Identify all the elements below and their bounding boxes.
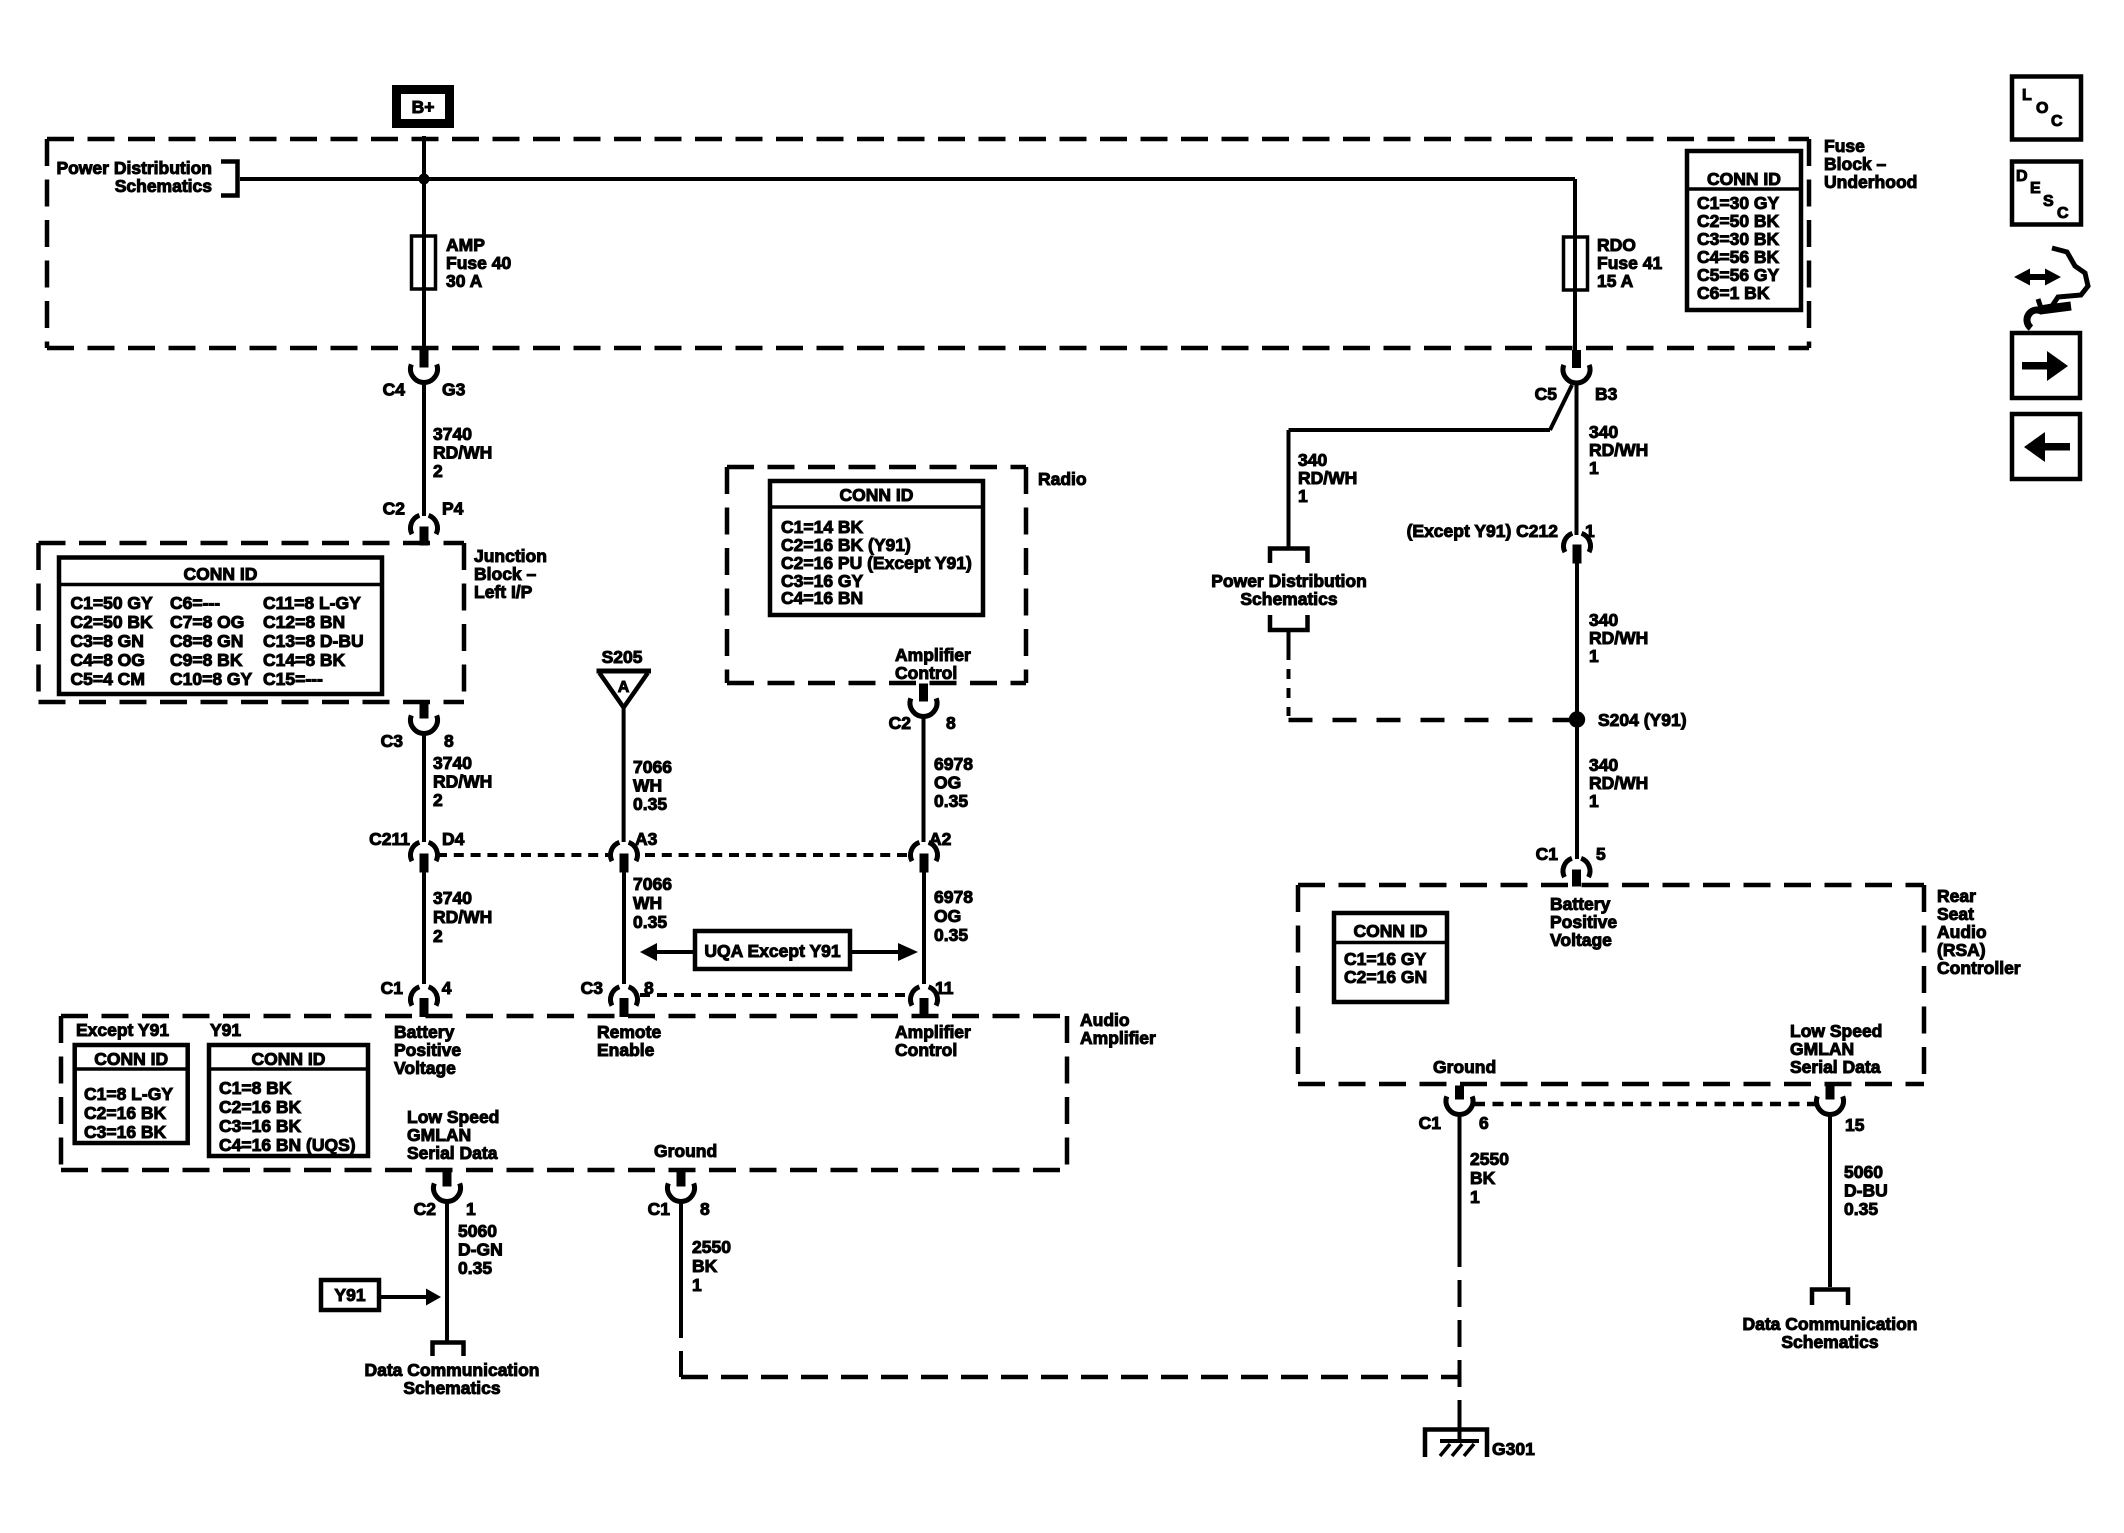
wire 5060 D-BU serial data — [1828, 1114, 1832, 1287]
svg-text:6978: 6978 — [934, 887, 973, 907]
svg-text:WH: WH — [633, 776, 662, 796]
connector C1 5 at RSA — [1563, 858, 1590, 886]
svg-text:C1=30 GY: C1=30 GY — [1697, 193, 1780, 213]
svg-text:RD/WH: RD/WH — [433, 443, 492, 463]
arrow right to amplifier control wire — [850, 950, 899, 954]
svg-text:RD/WH: RD/WH — [1298, 468, 1357, 488]
off-page bracket data communication left — [433, 1343, 464, 1357]
svg-text:B3: B3 — [1595, 384, 1618, 404]
svg-text:CONN ID: CONN ID — [1707, 169, 1781, 189]
svg-text:C4=16 BN (UQS): C4=16 BN (UQS) — [219, 1135, 356, 1155]
svg-text:L: L — [2022, 87, 2032, 104]
svg-text:0.35: 0.35 — [458, 1258, 492, 1278]
svg-text:Amplifier: Amplifier — [1080, 1028, 1156, 1048]
svg-text:3740: 3740 — [433, 888, 472, 908]
svg-text:C6=---: C6=--- — [170, 593, 220, 613]
svg-text:C9=8 BK: C9=8 BK — [170, 650, 243, 670]
connector 11 amplifier control — [911, 987, 938, 1017]
svg-text:Fuse 40: Fuse 40 — [446, 253, 511, 273]
svg-text:Y91: Y91 — [334, 1285, 365, 1305]
svg-text:C2=16 BK: C2=16 BK — [219, 1097, 302, 1117]
svg-text:CONN ID: CONN ID — [840, 485, 914, 505]
svg-text:1: 1 — [1470, 1187, 1480, 1207]
svg-text:2: 2 — [433, 790, 443, 810]
svg-text:RD/WH: RD/WH — [1589, 773, 1648, 793]
svg-text:340: 340 — [1589, 610, 1618, 630]
wire 340 RD/WH below S204 — [1575, 727, 1579, 859]
conn id table junction block — [59, 558, 382, 695]
wire dashed Y91 branch to S204 — [1289, 718, 1570, 723]
svg-text:C3: C3 — [381, 731, 404, 751]
wire 2550 BK rsa ground — [1458, 1114, 1462, 1240]
connector C1 6 ground rsa — [1446, 1086, 1473, 1114]
svg-text:C5=4 CM: C5=4 CM — [71, 669, 145, 689]
svg-text:1: 1 — [1298, 486, 1308, 506]
svg-text:C4=8 OG: C4=8 OG — [71, 650, 145, 670]
svg-text:P4: P4 — [442, 499, 464, 519]
svg-text:C6=1 BK: C6=1 BK — [1697, 283, 1770, 303]
svg-text:C2=50 BK: C2=50 BK — [71, 612, 154, 632]
svg-text:(RSA): (RSA) — [1937, 940, 1986, 960]
connector C1 8 ground out — [667, 1169, 694, 1201]
svg-text:Battery: Battery — [1550, 894, 1611, 914]
wire dashed ground route down — [679, 1311, 683, 1377]
connector C5 B3 at fuse block — [1563, 351, 1590, 383]
svg-text:C1=16 GY: C1=16 GY — [1344, 949, 1427, 969]
svg-text:C1=8 L-GY: C1=8 L-GY — [84, 1084, 173, 1104]
svg-text:8: 8 — [700, 1199, 710, 1219]
wire 3740 RD/WH segment 3 — [422, 871, 426, 984]
svg-text:BK: BK — [692, 1256, 718, 1276]
svg-text:Except Y91: Except Y91 — [76, 1020, 169, 1040]
wire B+ down to fuse AMP — [422, 136, 426, 352]
off-page bracket data communication right — [1812, 1290, 1848, 1306]
svg-text:C3: C3 — [581, 978, 604, 998]
conn id table amp except Y91 — [75, 1045, 188, 1143]
svg-text:340: 340 — [1589, 422, 1618, 442]
wire 340 RD/WH to power distribution — [1289, 428, 1551, 432]
svg-text:C1=14 BK: C1=14 BK — [781, 517, 864, 537]
svg-text:AMP: AMP — [446, 235, 485, 255]
wire 6978 OG from radio — [922, 716, 926, 842]
svg-text:S: S — [2043, 193, 2054, 210]
svg-text:340: 340 — [1589, 755, 1618, 775]
wire dashed connector line 8 to 11 — [640, 993, 909, 997]
wire dashed rsa ground down — [1458, 1240, 1462, 1412]
wire dashed connector line D4 to A3 — [437, 853, 608, 857]
svg-text:C: C — [2057, 205, 2069, 222]
svg-text:C7=8 OG: C7=8 OG — [170, 612, 244, 632]
connector C2 P4 at junction block — [411, 515, 438, 545]
svg-text:WH: WH — [633, 893, 662, 913]
svg-text:C1: C1 — [381, 978, 404, 998]
svg-text:8: 8 — [946, 713, 956, 733]
svg-text:C15=---: C15=--- — [263, 669, 323, 689]
svg-text:C5: C5 — [1535, 384, 1558, 404]
rear seat audio controller box — [1298, 885, 1924, 1084]
svg-text:C2=50 BK: C2=50 BK — [1697, 211, 1780, 231]
svg-text:1: 1 — [1589, 646, 1599, 666]
svg-text:C5=56 GY: C5=56 GY — [1697, 265, 1780, 285]
svg-text:C1=8 BK: C1=8 BK — [219, 1078, 292, 1098]
svg-text:C2: C2 — [414, 1199, 437, 1219]
svg-text:15: 15 — [1845, 1115, 1865, 1135]
svg-text:5: 5 — [1596, 844, 1606, 864]
svg-text:RD/WH: RD/WH — [433, 772, 492, 792]
svg-text:CONN ID: CONN ID — [252, 1049, 326, 1069]
svg-text:OG: OG — [934, 773, 961, 793]
svg-text:C3=8 GN: C3=8 GN — [71, 631, 144, 651]
svg-text:C4: C4 — [383, 380, 406, 400]
svg-text:4: 4 — [442, 978, 452, 998]
svg-text:Voltage: Voltage — [1550, 930, 1612, 950]
wire 7066 WH from S205 — [622, 707, 626, 842]
svg-text:Block –: Block – — [474, 564, 537, 584]
connector C212 — [1564, 533, 1591, 563]
svg-text:A2: A2 — [929, 829, 952, 849]
svg-text:UQA Except Y91: UQA Except Y91 — [704, 941, 840, 961]
svg-text:G301: G301 — [1492, 1439, 1535, 1459]
ground G301 — [1458, 1412, 1462, 1441]
svg-text:OG: OG — [934, 906, 961, 926]
wire 7066 WH segment 2 — [622, 871, 626, 984]
svg-text:Block –: Block – — [1824, 154, 1887, 174]
svg-text:Underhood: Underhood — [1824, 172, 1917, 192]
conn id table rsa — [1334, 913, 1447, 1002]
arrow Y91 to wire — [379, 1295, 427, 1299]
wire dashed connector line 6 to 15 — [1474, 1102, 1815, 1107]
svg-text:C1=50 GY: C1=50 GY — [71, 593, 154, 613]
icon arrow back box — [2012, 414, 2080, 479]
wire 340 RD/WH below C212 — [1575, 562, 1579, 712]
svg-text:Low Speed: Low Speed — [1790, 1021, 1882, 1041]
svg-text:C4=16 BN: C4=16 BN — [781, 588, 863, 608]
conn id table radio — [770, 481, 983, 615]
svg-text:C3=16 BK: C3=16 BK — [219, 1116, 302, 1136]
svg-text:O: O — [2036, 100, 2048, 117]
svg-text:C1: C1 — [1536, 844, 1559, 864]
svg-text:Audio: Audio — [1937, 922, 1987, 942]
svg-text:GMLAN: GMLAN — [407, 1125, 471, 1145]
svg-text:BK: BK — [1470, 1168, 1496, 1188]
svg-text:C2=16 PU (Except Y91): C2=16 PU (Except Y91) — [781, 553, 972, 573]
conn id table amp Y91 — [209, 1045, 368, 1156]
svg-text:GMLAN: GMLAN — [1790, 1039, 1854, 1059]
svg-text:7066: 7066 — [633, 757, 672, 777]
svg-text:Enable: Enable — [597, 1040, 655, 1060]
svg-text:RD/WH: RD/WH — [1589, 628, 1648, 648]
svg-text:30 A: 30 A — [446, 271, 483, 291]
wire 2550 BK ground — [679, 1201, 683, 1311]
svg-text:C2: C2 — [383, 499, 406, 519]
svg-text:2: 2 — [433, 926, 443, 946]
svg-text:Controller: Controller — [1937, 958, 2021, 978]
svg-text:G3: G3 — [442, 380, 466, 400]
svg-text:3740: 3740 — [433, 424, 472, 444]
svg-text:Battery: Battery — [394, 1022, 455, 1042]
svg-text:Schematics: Schematics — [1781, 1332, 1879, 1352]
wire 5060 D-GN — [445, 1201, 449, 1341]
connector C2 1 serial data out — [434, 1169, 461, 1201]
junction block left IP box — [39, 543, 465, 702]
wire 340 RD/WH from B3 down — [1575, 381, 1579, 535]
svg-text:A: A — [618, 679, 630, 696]
wire 3740 RD/WH segment 2 — [422, 733, 426, 842]
svg-text:2550: 2550 — [1470, 1149, 1509, 1169]
svg-text:C4=56 BK: C4=56 BK — [1697, 247, 1780, 267]
connector C4 G3 at fuse block — [411, 350, 438, 382]
svg-text:RD/WH: RD/WH — [433, 907, 492, 927]
svg-text:Low Speed: Low Speed — [407, 1107, 499, 1127]
fuse RDO Fuse 41 15A — [1564, 237, 1588, 290]
svg-text:CONN ID: CONN ID — [184, 564, 258, 584]
svg-text:Ground: Ground — [1433, 1057, 1496, 1077]
svg-text:C11=8 L-GY: C11=8 L-GY — [263, 593, 361, 613]
svg-text:C3=16 BK: C3=16 BK — [84, 1122, 167, 1142]
svg-text:C: C — [2051, 113, 2063, 130]
svg-text:D4: D4 — [442, 829, 465, 849]
svg-text:Schematics: Schematics — [1240, 589, 1338, 609]
icon LOC box — [2012, 77, 2081, 140]
svg-text:C14=8 BK: C14=8 BK — [263, 650, 346, 670]
wire diagonal branch from B3 — [1550, 385, 1572, 430]
svg-text:D-GN: D-GN — [458, 1240, 503, 1260]
svg-text:RD/WH: RD/WH — [1589, 440, 1648, 460]
svg-text:S205: S205 — [602, 647, 643, 667]
svg-text:Seat: Seat — [1937, 904, 1974, 924]
wire RDO fuse branch down — [1573, 179, 1577, 352]
wire 340 RD/WH down to off-page — [1287, 430, 1291, 547]
svg-text:6: 6 — [1479, 1113, 1489, 1133]
svg-text:C10=8 GY: C10=8 GY — [170, 669, 253, 689]
svg-text:6978: 6978 — [934, 754, 973, 774]
wire dashed Y91 branch down — [1287, 650, 1291, 716]
svg-text:Schematics: Schematics — [403, 1378, 501, 1398]
node splice at B+ feed — [419, 174, 430, 185]
svg-text:C1: C1 — [1419, 1113, 1442, 1133]
off-page bracket power distribution — [221, 162, 238, 196]
svg-text:(Except Y91) C212: (Except Y91) C212 — [1407, 521, 1559, 541]
svg-text:1: 1 — [692, 1275, 702, 1295]
svg-text:C2=16 BK (Y91): C2=16 BK (Y91) — [781, 535, 911, 555]
svg-text:5060: 5060 — [458, 1221, 497, 1241]
svg-text:11: 11 — [935, 978, 954, 998]
svg-text:0.35: 0.35 — [633, 794, 667, 814]
svg-text:RDO: RDO — [1597, 235, 1636, 255]
connector A3 — [611, 842, 638, 872]
svg-text:Left I/P: Left I/P — [474, 582, 533, 602]
svg-text:Power Distribution: Power Distribution — [1211, 571, 1367, 591]
svg-text:Serial Data: Serial Data — [407, 1143, 498, 1163]
wire stub below off-page symbol — [1287, 630, 1291, 650]
connector C3 8 leaving junction block — [411, 701, 438, 733]
svg-text:C2=16 BK: C2=16 BK — [84, 1103, 167, 1123]
svg-text:Control: Control — [895, 663, 957, 683]
svg-text:Data Communication: Data Communication — [364, 1360, 539, 1380]
svg-text:CONN ID: CONN ID — [1354, 921, 1428, 941]
svg-text:C211: C211 — [369, 829, 410, 849]
splice S205 triangle — [597, 669, 652, 674]
svg-text:7066: 7066 — [633, 874, 672, 894]
wire 6978 OG segment 2 — [922, 871, 926, 984]
svg-text:Y91: Y91 — [210, 1020, 241, 1040]
arrow left to remote enable wire — [656, 950, 695, 954]
svg-text:D: D — [2016, 168, 2028, 185]
svg-text:Schematics: Schematics — [115, 176, 213, 196]
svg-text:Data Communication: Data Communication — [1742, 1314, 1917, 1334]
svg-text:Radio: Radio — [1038, 469, 1087, 489]
connector C2 8 at radio — [910, 684, 937, 716]
svg-text:C2=16 GN: C2=16 GN — [1344, 967, 1427, 987]
svg-text:Control: Control — [895, 1040, 957, 1060]
svg-text:C12=8 BN: C12=8 BN — [263, 612, 345, 632]
svg-text:340: 340 — [1298, 450, 1327, 470]
svg-text:8: 8 — [444, 731, 454, 751]
svg-text:Serial Data: Serial Data — [1790, 1057, 1881, 1077]
svg-text:Power Distribution: Power Distribution — [56, 158, 212, 178]
connector 15 serial data rsa — [1817, 1086, 1844, 1114]
radio box — [727, 467, 1026, 683]
wire dashed ground route right — [681, 1375, 1461, 1380]
svg-text:5060: 5060 — [1844, 1162, 1883, 1182]
conn id table fuse block — [1687, 151, 1801, 310]
svg-text:1: 1 — [1589, 458, 1599, 478]
svg-text:1: 1 — [466, 1199, 476, 1219]
svg-text:1: 1 — [1589, 791, 1599, 811]
svg-text:C1: C1 — [648, 1199, 671, 1219]
wire dashed connector line A3 to A2 — [645, 853, 909, 857]
icon flow arrows with wrench — [2026, 274, 2048, 280]
connector C3 8 remote enable — [611, 987, 638, 1017]
svg-text:15 A: 15 A — [1597, 271, 1634, 291]
svg-text:0.35: 0.35 — [1844, 1199, 1878, 1219]
connector C1 4 battery positive — [411, 987, 438, 1017]
splice S204 junction dot — [1569, 711, 1585, 727]
svg-text:D-BU: D-BU — [1844, 1181, 1888, 1201]
fuse AMP Fuse 40 30A — [412, 236, 436, 289]
off-page symbol power distribution schematics — [1270, 549, 1308, 564]
svg-text:Positive: Positive — [1550, 912, 1617, 932]
svg-text:3740: 3740 — [433, 753, 472, 773]
wire 3740 RD/WH segment 1 — [422, 381, 426, 516]
svg-text:Audio: Audio — [1080, 1010, 1130, 1030]
svg-text:2: 2 — [433, 461, 443, 481]
svg-text:Junction: Junction — [474, 546, 547, 566]
svg-text:0.35: 0.35 — [934, 925, 968, 945]
svg-text:S204 (Y91): S204 (Y91) — [1598, 710, 1687, 730]
svg-text:Fuse: Fuse — [1824, 136, 1865, 156]
svg-text:Ground: Ground — [654, 1141, 717, 1161]
svg-text:C2: C2 — [889, 713, 912, 733]
svg-text:C13=8 D-BU: C13=8 D-BU — [263, 631, 364, 651]
svg-text:C3=30 BK: C3=30 BK — [1697, 229, 1780, 249]
svg-text:Positive: Positive — [394, 1040, 461, 1060]
svg-text:Amplifier: Amplifier — [895, 645, 971, 665]
svg-text:Remote: Remote — [597, 1022, 661, 1042]
svg-text:Fuse 41: Fuse 41 — [1597, 253, 1662, 273]
svg-text:A3: A3 — [635, 829, 658, 849]
svg-text:E: E — [2030, 180, 2041, 197]
B+ battery feed box — [397, 90, 450, 124]
svg-text:2550: 2550 — [692, 1237, 731, 1257]
audio amplifier box — [61, 1016, 1067, 1170]
wire power distribution bus — [240, 177, 1575, 181]
callout box UQA Except Y91 — [695, 931, 850, 969]
svg-text:Rear: Rear — [1937, 886, 1976, 906]
svg-text:Voltage: Voltage — [394, 1058, 456, 1078]
connector C211 D4 — [411, 842, 438, 872]
svg-text:C8=8 GN: C8=8 GN — [170, 631, 243, 651]
svg-text:0.35: 0.35 — [633, 912, 667, 932]
icon DESC box — [2012, 162, 2081, 225]
svg-text:0.35: 0.35 — [934, 791, 968, 811]
connector A2 — [911, 842, 938, 872]
svg-text:CONN ID: CONN ID — [94, 1049, 168, 1069]
svg-text:B+: B+ — [412, 97, 435, 117]
callout box Y91 — [321, 1280, 379, 1310]
fuse block underhood box — [47, 139, 1809, 348]
svg-text:Amplifier: Amplifier — [895, 1022, 971, 1042]
icon arrow next box — [2012, 333, 2080, 398]
